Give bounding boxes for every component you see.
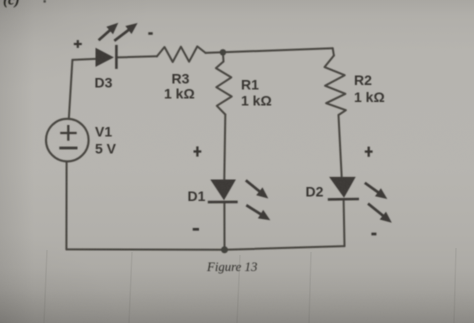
resistor R3 (157, 46, 206, 62)
wire R1 to D1 (224, 115, 225, 180)
D3 light arrow 1 (99, 29, 112, 40)
polarity + (D2 anode) (365, 147, 373, 157)
D1 light arrow 1 (246, 180, 261, 192)
paper crease lines (44, 248, 456, 323)
polarity + (D1 anode) (194, 146, 202, 156)
wire R3 to node A to top-right corner (206, 48, 333, 53)
wire top-right corner to R2 (333, 48, 334, 55)
polarity - (D1 cathode) (193, 228, 199, 231)
wire left vertical (top corner to V1) (69, 60, 73, 118)
wire V1 to bottom-left corner (65, 161, 67, 249)
voltage source V1 (46, 119, 89, 162)
wire bottom rail (66, 246, 344, 250)
wire top-left corner to D3 anode (72, 59, 95, 60)
wire D1 to bottom junction (223, 203, 225, 250)
D2 light arrow 1 (365, 183, 380, 194)
wire node A to R1 (222, 52, 225, 61)
D1 light arrow 2 (246, 205, 262, 215)
D3 light arrow 2 (114, 29, 130, 41)
node A junction dot (220, 49, 226, 55)
diode D2 (LED) (328, 177, 392, 223)
polarity + (D3 anode) (74, 40, 82, 48)
D2 light arrow 2 (368, 204, 384, 217)
speck (44, 0, 46, 3)
diode D1 (LED) (208, 180, 270, 221)
bottom junction dot (221, 246, 228, 253)
wire R2 to D2 (339, 115, 342, 177)
polarity - (D3 cathode) (148, 32, 152, 35)
wire D2 to bottom-right corner (343, 199, 346, 246)
resistor R2 (325, 56, 346, 116)
resistor R1 (216, 62, 232, 115)
wire D3 cathode to R3 (118, 56, 158, 57)
polarity - (D2 cathode) (371, 233, 376, 236)
diode D3 (LED) (96, 23, 138, 69)
